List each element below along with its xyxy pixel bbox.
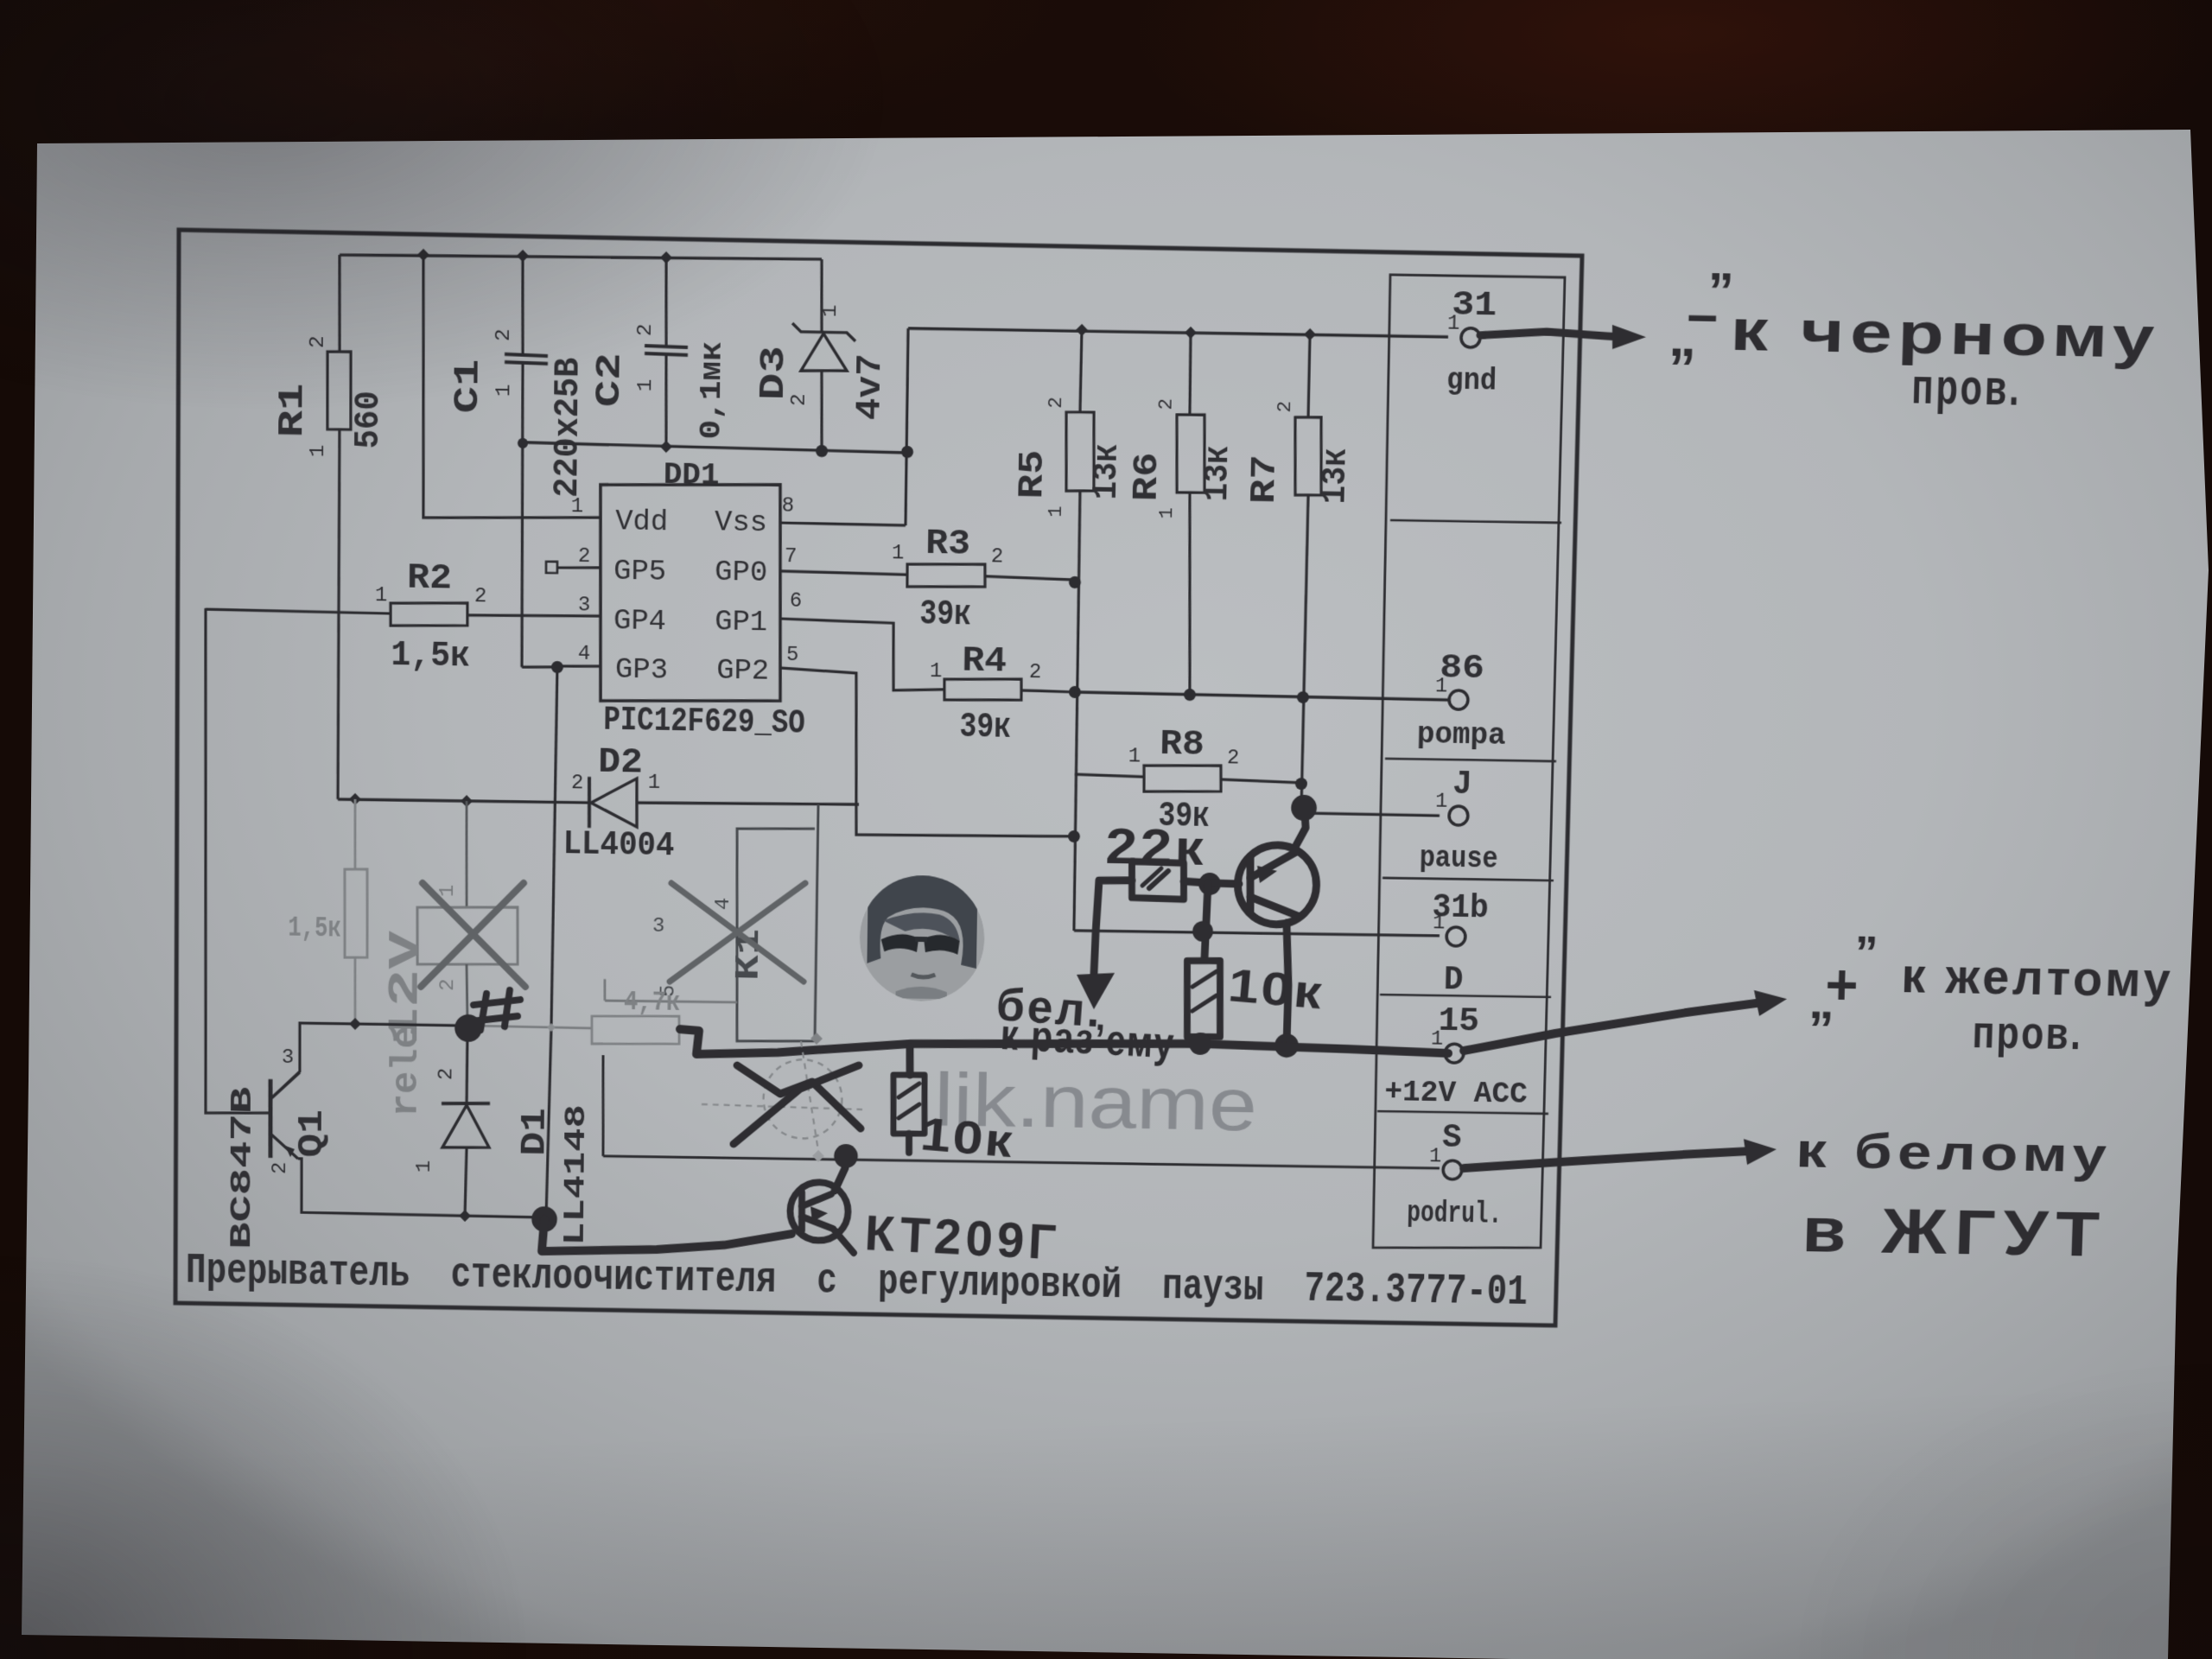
svg-text:1: 1: [413, 1160, 435, 1173]
wire Vdd feed: [422, 255, 603, 521]
svg-text:пров.: пров.: [1972, 1005, 2084, 1059]
svg-text:2: 2: [634, 323, 658, 336]
svg-text:1: 1: [1433, 912, 1446, 935]
svg-text:2: 2: [1029, 661, 1042, 684]
svg-text:2: 2: [436, 979, 459, 992]
node pin 15: [1445, 1044, 1464, 1063]
marker node VT1-15: [1274, 1033, 1299, 1058]
svg-text:+12V ACC: +12V ACC: [1384, 1074, 1528, 1111]
node junction GP2-R5: [1068, 830, 1080, 842]
svg-text:Vss: Vss: [715, 505, 767, 540]
no-connect GP5: [546, 562, 557, 573]
marker wire 15 line: [680, 1029, 1449, 1067]
svg-text:10к: 10к: [1226, 958, 1326, 1019]
svg-text:”: ”: [1854, 925, 1880, 978]
wire R1 top: [339, 255, 340, 352]
svg-text:1: 1: [634, 378, 658, 391]
svg-text:4: 4: [712, 898, 735, 911]
svg-text:2: 2: [1045, 397, 1067, 409]
wire R2 right: [467, 613, 601, 617]
node pin 31: [1461, 328, 1480, 348]
svg-text:2: 2: [571, 772, 584, 795]
wire R5 top: [1080, 330, 1082, 412]
svg-text:pause: pause: [1419, 841, 1498, 877]
svg-text:1: 1: [436, 884, 460, 897]
wire C1 bottom: [520, 364, 524, 667]
node junction dash: [810, 1033, 823, 1045]
wire R3 right: [985, 576, 1075, 580]
node junction R7 top: [1304, 328, 1316, 340]
relay contact K1 box: [734, 803, 818, 1042]
svg-text:1,5к: 1,5к: [288, 912, 341, 945]
svg-text:R3: R3: [925, 524, 970, 565]
svg-text:2: 2: [788, 393, 811, 406]
svg-text:GP3: GP3: [615, 653, 668, 688]
connector divider 2: [1385, 759, 1556, 762]
svg-text:2: 2: [307, 335, 330, 348]
svg-text:39к: 39к: [959, 708, 1011, 748]
svg-text:D: D: [1444, 961, 1465, 999]
svg-text:1,5к: 1,5к: [391, 636, 470, 677]
svg-text:GP4: GP4: [613, 604, 666, 639]
svg-text:3: 3: [652, 915, 665, 938]
svg-text:1: 1: [1155, 507, 1178, 519]
resistor R7: [1294, 416, 1323, 495]
wire R5 down: [1072, 491, 1082, 931]
resistor R4: [944, 677, 1022, 701]
marker wire pinS: [1464, 1146, 1752, 1173]
svg-text:GP2: GP2: [716, 654, 769, 689]
marker transistor VT1: [1237, 844, 1318, 925]
resistor R2: [391, 601, 467, 626]
svg-text:7: 7: [785, 545, 798, 569]
resistor R3: [907, 563, 986, 588]
svg-text:2: 2: [991, 545, 1004, 569]
wire K1 pin3: [605, 1000, 737, 1002]
node junction D1-emitter: [459, 1210, 471, 1222]
node pin 86: [1449, 690, 1468, 709]
svg-text:4: 4: [578, 643, 591, 666]
svg-text:6: 6: [790, 590, 803, 613]
node junction R6-pompa: [1184, 689, 1196, 701]
wire GP3: [522, 666, 557, 667]
wire GP0 stub: [780, 571, 907, 575]
resistor R6: [1175, 414, 1205, 493]
wire C2 bottom: [665, 355, 667, 447]
svg-text:BC847B: BC847B: [225, 1086, 260, 1249]
wire R2 row: [206, 609, 391, 613]
svg-text:4v7: 4v7: [851, 353, 891, 421]
resistor R1: [327, 352, 351, 430]
node junction rail-DD1vdd: [417, 249, 429, 262]
node junction gnd-C1: [518, 438, 528, 448]
marker wire pin31: [1480, 331, 1623, 338]
capacitor C2: [645, 346, 688, 347]
diode D2: [588, 777, 589, 828]
resistor R5: [1065, 411, 1095, 491]
node pin 31b: [1446, 927, 1465, 946]
pencil cross K1: [670, 880, 805, 983]
marker wire KT209 collector: [835, 1158, 846, 1191]
wire D1 bottom: [465, 1147, 467, 1216]
node junction R5 top: [1076, 324, 1088, 336]
svg-text:3: 3: [578, 594, 591, 617]
marker resistor 10k upper: [1185, 960, 1221, 1037]
svg-text:Q1: Q1: [294, 1109, 333, 1158]
svg-text:GP1: GP1: [715, 605, 767, 639]
svg-text:в ЖГУТ: в ЖГУТ: [1802, 1194, 2109, 1269]
svg-text:к желтому: к желтому: [1901, 948, 2175, 1007]
svg-text:10к: 10к: [918, 1107, 1016, 1167]
marker hash mark: [480, 994, 486, 1030]
svg-text:PIC12F629_SO: PIC12F629_SO: [603, 702, 805, 743]
marker tail KT209: [835, 1230, 855, 1253]
wire pause: [1300, 813, 1440, 816]
svg-text:LL4148: LL4148: [558, 1104, 594, 1246]
wire GP1 stub: [779, 619, 945, 691]
marker wire 10k upper: [1205, 883, 1208, 959]
svg-text:2: 2: [474, 585, 487, 608]
wire D3 bottom: [821, 371, 823, 451]
marker wire base: [1210, 880, 1239, 888]
node junction GP3: [551, 661, 563, 673]
svg-text:Vdd: Vdd: [615, 505, 668, 539]
node junction rail-C2: [660, 251, 672, 264]
diode D1: [442, 1103, 490, 1104]
transistor Q1: [268, 1079, 273, 1158]
wire rele top: [466, 801, 467, 907]
resistor 1,5k gray: [344, 869, 367, 958]
wire gnd riser: [906, 328, 909, 525]
svg-text:1: 1: [307, 444, 330, 457]
svg-text:220x25B: 220x25B: [549, 357, 589, 498]
svg-text:R5: R5: [1014, 449, 1053, 499]
wire rele bottom: [466, 964, 467, 1027]
marker node KT209-S: [834, 1144, 858, 1168]
svg-text:КТ209Г: КТ209Г: [863, 1205, 1061, 1270]
svg-text:1: 1: [1431, 1028, 1444, 1052]
wire 1k5 bottom: [353, 957, 357, 1024]
svg-text:D1: D1: [517, 1108, 556, 1156]
svg-text:2: 2: [269, 1162, 291, 1175]
wire C2 top: [665, 257, 667, 346]
wire R7 down: [1301, 495, 1308, 813]
svg-text:D2: D2: [598, 743, 643, 783]
wire Vss stub: [780, 523, 906, 525]
svg-text:C1: C1: [448, 359, 488, 414]
capacitor C1: [505, 354, 548, 356]
connector divider 1: [1390, 519, 1561, 523]
resistor R8: [1143, 764, 1221, 792]
svg-text:1: 1: [1045, 505, 1067, 518]
svg-text:15: 15: [1438, 1002, 1479, 1040]
marker resistor 10k lower: [893, 1074, 925, 1134]
svg-text:1: 1: [930, 660, 943, 683]
node junction R4-R5: [1069, 686, 1081, 698]
svg-text:GP5: GP5: [613, 555, 666, 589]
connector box: [1369, 274, 1565, 1250]
svg-text:1: 1: [1429, 1145, 1442, 1168]
node junction rail-C1: [517, 250, 529, 263]
node junction R7-pompa: [1297, 691, 1309, 703]
wire GP3 down: [551, 667, 557, 1028]
svg-text:pompa: pompa: [1416, 716, 1506, 753]
wire Q1 collector: [270, 1022, 467, 1103]
wire 31b: [1074, 930, 1440, 937]
marker wire VT1 collector: [1294, 812, 1306, 850]
node junction gnd-D3: [816, 445, 828, 457]
border frame: [175, 230, 1582, 1325]
avatar face photo: [859, 874, 986, 1002]
wire R4 right: [1021, 690, 1075, 692]
svg-text:к белому: к белому: [1796, 1122, 2113, 1182]
svg-text:0,1мк: 0,1мк: [694, 341, 730, 440]
marker wire VT1 emitter: [1284, 923, 1289, 1044]
svg-text:пров.: пров.: [1911, 358, 2023, 416]
wire pompa: [1075, 692, 1448, 700]
marker wire 22k left: [1094, 880, 1132, 975]
svg-text:39к: 39к: [919, 595, 971, 636]
wire R8 right: [1221, 779, 1301, 783]
svg-text:8: 8: [782, 495, 795, 518]
marker wire pin15: [1464, 997, 1763, 1056]
marker wire 22k right: [1184, 881, 1210, 883]
svg-text:13к: 13к: [1087, 443, 1127, 500]
wire D2 left: [338, 798, 589, 804]
svg-text:2: 2: [493, 328, 516, 341]
marker arrow bel: [1076, 972, 1115, 1009]
svg-text:gnd: gnd: [1446, 363, 1497, 399]
marker node 10k-15: [1189, 1033, 1211, 1055]
svg-text:C2: C2: [590, 353, 630, 408]
wire S riser: [602, 1055, 604, 1156]
marker node 22k-31b: [1192, 921, 1213, 942]
svg-text:D3: D3: [754, 346, 794, 401]
svg-text:3: 3: [282, 1046, 294, 1070]
svg-text:J: J: [1452, 766, 1472, 804]
wire R7 top: [1308, 334, 1310, 417]
marker node base: [1198, 873, 1221, 895]
wire S net: [603, 1154, 1440, 1170]
svg-text:R8: R8: [1160, 725, 1205, 765]
svg-text:S: S: [1442, 1120, 1462, 1157]
relay coil rele box: [417, 906, 518, 966]
marker transistor KT209: [790, 1182, 849, 1241]
marker cross circle: [736, 1065, 861, 1128]
wire gnd rail: [523, 442, 908, 453]
node junction 1k5: [349, 793, 361, 805]
svg-text:R2: R2: [407, 559, 452, 600]
svg-text:1: 1: [1128, 745, 1141, 768]
resistor 4,7k gray: [592, 1014, 680, 1045]
svg-text:R7: R7: [1245, 454, 1285, 504]
node junction gp3-4k7: [547, 1023, 556, 1032]
node junction gnd-riser: [901, 446, 913, 458]
wire +5V top rail: [340, 251, 822, 264]
wire 1k5 top: [353, 799, 357, 869]
wire R6 top: [1189, 333, 1192, 415]
svg-text:rele: rele: [386, 1026, 429, 1117]
svg-text:LL4004: LL4004: [563, 825, 674, 865]
wire GP2: [779, 668, 1077, 838]
wire D3 top: [821, 259, 823, 332]
svg-text:1: 1: [1447, 313, 1460, 336]
wire D2 right: [637, 801, 859, 807]
printed dashed circle: [763, 1059, 842, 1140]
diode D3 zener: [792, 323, 855, 341]
node pin J: [1449, 806, 1468, 825]
svg-text:1: 1: [892, 542, 905, 565]
node junction gnd-C2: [660, 441, 672, 453]
pencil cross rele: [421, 881, 524, 988]
marker node VT1-J: [1291, 795, 1317, 822]
wire R8 left: [1075, 774, 1144, 777]
wire gnd net rail: [908, 327, 1448, 339]
wire R2 left: [204, 608, 273, 1114]
svg-text:2: 2: [435, 1068, 457, 1081]
wire collector to 4k7: [467, 1026, 592, 1028]
svg-text:R6: R6: [1128, 452, 1167, 501]
wire R1 bottom: [338, 429, 340, 799]
svg-text:GP0: GP0: [715, 556, 767, 590]
svg-text:2: 2: [1155, 398, 1178, 410]
svg-text:R1: R1: [273, 383, 313, 438]
wire D1 top: [465, 1028, 468, 1103]
connector divider 5: [1377, 1111, 1548, 1115]
wire Q1 emitter: [298, 1159, 543, 1217]
connector divider 4: [1380, 995, 1551, 998]
svg-text:DD1: DD1: [664, 457, 720, 493]
marker node emitter: [531, 1206, 557, 1232]
svg-text:1: 1: [648, 772, 661, 795]
node junction R8-R7: [1295, 778, 1307, 790]
svg-text:4,7к: 4,7к: [624, 987, 681, 1019]
node pin S: [1443, 1160, 1462, 1179]
svg-text:1: 1: [819, 304, 842, 317]
svg-text:1: 1: [493, 384, 516, 397]
node junction rele: [461, 795, 473, 807]
svg-text:13к: 13к: [1316, 448, 1357, 504]
svg-text:22к: 22к: [1105, 819, 1207, 876]
svg-text:1: 1: [1435, 791, 1448, 814]
wire R6 down: [1186, 493, 1194, 695]
svg-text:1: 1: [375, 584, 388, 607]
ic DD1 box: [599, 481, 784, 703]
wire C1 top: [522, 256, 524, 354]
svg-text:к разʼему: к разʼему: [999, 1010, 1176, 1067]
svg-text:2: 2: [578, 545, 591, 569]
marker wire bottom: [542, 1219, 791, 1255]
node junction 1k5-collector: [349, 1018, 361, 1030]
svg-text:13к: 13к: [1198, 445, 1238, 501]
marker dot rele-D1: [454, 1014, 482, 1042]
svg-text:2: 2: [1227, 747, 1240, 770]
node junction R6 top: [1185, 327, 1197, 339]
node junction dash2: [812, 1150, 824, 1162]
svg-text:1: 1: [1435, 675, 1448, 698]
svg-text:podrul.: podrul.: [1407, 1196, 1503, 1232]
svg-text:5: 5: [786, 644, 799, 667]
svg-text:R4: R4: [962, 642, 1007, 683]
svg-text:560: 560: [349, 391, 389, 449]
connector divider 3: [1382, 878, 1554, 881]
node junction R3-R5: [1069, 576, 1081, 588]
svg-text:2: 2: [1274, 401, 1296, 413]
